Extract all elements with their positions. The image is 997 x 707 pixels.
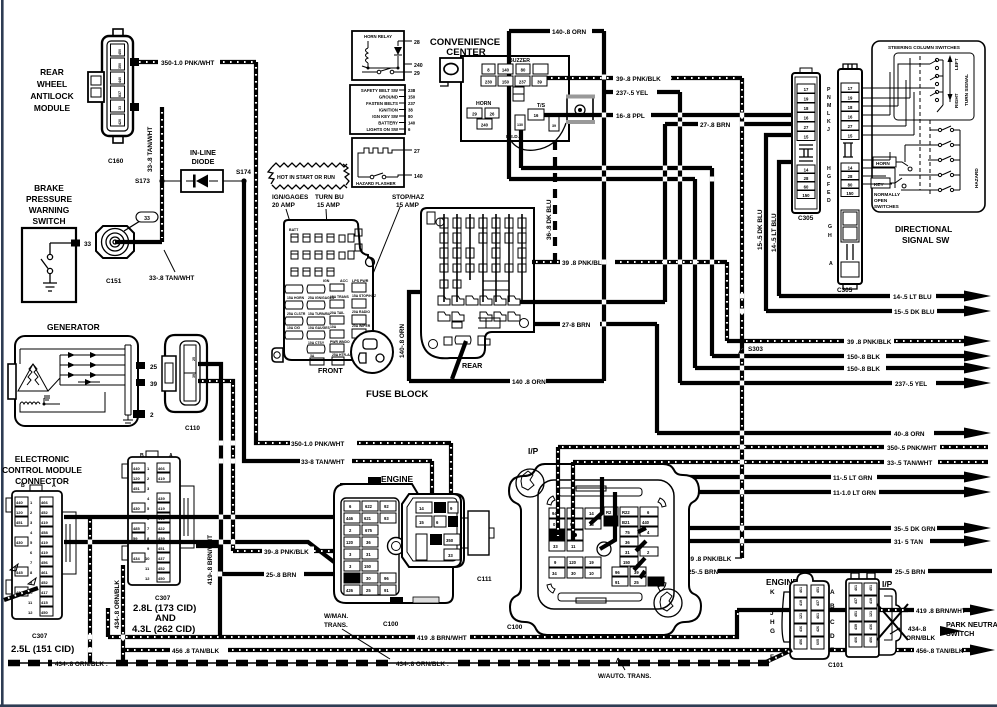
svg-text:K: K	[770, 589, 775, 596]
svg-text:ENGINE: ENGINE	[381, 474, 414, 484]
svg-text:350: 350	[446, 538, 454, 543]
in-line diode D1	[164, 148, 244, 192]
svg-text:120: 120	[346, 540, 354, 545]
hazard contacts right	[938, 128, 941, 131]
wire 27-8 BRN from rear block	[520, 302, 665, 329]
svg-text:420: 420	[118, 119, 122, 125]
svg-text:REAR: REAR	[40, 67, 64, 77]
svg-text:GROUND: GROUND	[379, 95, 398, 100]
svg-text:DIODE: DIODE	[192, 157, 215, 166]
svg-text:430: 430	[133, 506, 140, 511]
svg-text:W/MAN.: W/MAN.	[324, 613, 348, 620]
svg-text:33-.5 TAN/WHT: 33-.5 TAN/WHT	[887, 460, 932, 467]
svg-text:350: 350	[118, 63, 122, 69]
svg-text:419: 419	[41, 550, 48, 555]
wire 31-.5 TAN row	[646, 536, 991, 547]
svg-text:34: 34	[552, 571, 557, 576]
svg-text:36: 36	[366, 540, 371, 545]
svg-text:25-.5 BRN: 25-.5 BRN	[895, 569, 926, 576]
svg-text:240: 240	[481, 123, 489, 128]
svg-text:458: 458	[41, 530, 48, 535]
svg-text:350-1.0 PNK/WHT: 350-1.0 PNK/WHT	[161, 60, 214, 67]
svg-text:439: 439	[158, 496, 165, 501]
svg-text:T/S: T/S	[537, 103, 546, 109]
svg-text:19: 19	[848, 96, 853, 101]
svg-text:C110: C110	[185, 425, 200, 432]
svg-text:26: 26	[490, 112, 495, 117]
svg-text:NORMALLY: NORMALLY	[874, 192, 901, 197]
svg-text:SWITCHES: SWITCHES	[874, 204, 899, 209]
svg-text:15A STOP/HAZ: 15A STOP/HAZ	[352, 294, 376, 298]
wire 35-.5 DK GRN row	[646, 523, 991, 534]
svg-text:15: 15	[848, 134, 853, 139]
svg-text:20A TAIL: 20A TAIL	[330, 311, 344, 315]
svg-text:10A CIG: 10A CIG	[287, 326, 300, 330]
svg-text:415: 415	[41, 600, 48, 605]
left right arrows	[949, 60, 951, 102]
wire 25-.5 BRN row	[645, 569, 992, 576]
wire 25-8 BRN to engine	[221, 570, 334, 580]
svg-text:434: 434	[133, 556, 140, 561]
svg-text:39-.8 PNK/BLK: 39-.8 PNK/BLK	[616, 76, 661, 83]
wire 350-1.0 PNK/WHT top	[139, 58, 256, 68]
svg-text:436: 436	[799, 626, 803, 632]
svg-text:10A: 10A	[330, 325, 337, 329]
svg-text:19: 19	[804, 97, 809, 102]
svg-text:140: 140	[408, 121, 416, 126]
svg-text:33: 33	[553, 544, 558, 549]
wire 39-.8 PNK/BLK to engine	[233, 547, 334, 557]
svg-text:STOP/HAZ: STOP/HAZ	[392, 194, 424, 201]
svg-text:434-.8: 434-.8	[908, 626, 927, 633]
svg-text:96: 96	[384, 576, 389, 581]
wire 39-.8 PNK/BLK right row	[742, 336, 991, 347]
svg-text:33: 33	[144, 216, 150, 222]
svg-text:437: 437	[816, 600, 820, 606]
svg-text:450: 450	[118, 49, 122, 55]
node S173	[135, 178, 165, 185]
svg-text:HAZARD FLASHER: HAZARD FLASHER	[356, 181, 397, 186]
svg-text:C305: C305	[837, 287, 853, 294]
svg-text:W/AUTO. TRANS.: W/AUTO. TRANS.	[598, 673, 651, 680]
svg-text:C101: C101	[828, 662, 844, 669]
svg-text:120: 120	[650, 580, 658, 585]
svg-text:33-.8 TAN/WHT: 33-.8 TAN/WHT	[149, 275, 194, 282]
svg-text:29: 29	[472, 112, 477, 117]
svg-text:150-.8 BLK: 150-.8 BLK	[847, 354, 880, 361]
svg-text:B21: B21	[622, 520, 630, 525]
svg-text:H: H	[828, 233, 832, 239]
svg-text:121: 121	[799, 613, 803, 619]
svg-text:HOT IN START OR RUN: HOT IN START OR RUN	[277, 175, 335, 181]
svg-text:36-.8 DK BLU: 36-.8 DK BLU	[546, 199, 553, 240]
svg-text:80: 80	[408, 114, 413, 119]
svg-text:K: K	[827, 119, 831, 125]
svg-text:IGN KEY SW: IGN KEY SW	[372, 114, 399, 119]
left edge hatched stub	[4, 564, 38, 600]
svg-text:33: 33	[118, 106, 122, 110]
svg-text:430: 430	[16, 540, 23, 545]
svg-text:25-.5 BRN: 25-.5 BRN	[688, 569, 719, 576]
svg-text:439: 439	[854, 624, 858, 630]
svg-text:20 AMP: 20 AMP	[272, 202, 296, 209]
I/P connector C101	[846, 573, 901, 657]
svg-text:P.E.D.: P.E.D.	[506, 134, 519, 139]
svg-text:16: 16	[804, 116, 809, 121]
svg-text:35-.5 DK GRN: 35-.5 DK GRN	[894, 526, 936, 533]
svg-text:140-.8 ORN: 140-.8 ORN	[552, 29, 586, 36]
svg-text:11: 11	[571, 544, 576, 549]
svg-text:14: 14	[589, 511, 594, 516]
svg-text:461: 461	[41, 570, 48, 575]
wire 11-1.0 LT GRN row	[615, 487, 991, 498]
svg-text:15-.5 DK BLU: 15-.5 DK BLU	[894, 309, 935, 316]
svg-text:ACC: ACC	[340, 279, 348, 283]
wire 237-.5 YEL	[604, 88, 680, 98]
svg-text:31- 5 TAN: 31- 5 TAN	[894, 539, 923, 546]
svg-text:437: 437	[854, 598, 858, 604]
svg-text:BATT: BATT	[289, 228, 299, 232]
wire 39-.8 PNK/BLK from fuse 39	[547, 74, 742, 84]
svg-text:20A RADIO: 20A RADIO	[352, 310, 370, 314]
svg-text:CONTROL MODULE: CONTROL MODULE	[2, 465, 82, 475]
svg-text:28: 28	[414, 40, 420, 46]
wire 419-.8 BRN/WHT bottom row	[108, 608, 914, 642]
steering column switches box	[862, 41, 985, 212]
svg-text:C100: C100	[383, 621, 399, 628]
svg-text:238: 238	[408, 88, 416, 93]
wire 140-.8 ORN at rear block left	[399, 292, 421, 381]
switch list box	[350, 85, 416, 134]
svg-text:120: 120	[569, 560, 577, 565]
svg-text:HORN RELAY: HORN RELAY	[364, 34, 392, 39]
svg-text:150: 150	[502, 80, 510, 85]
svg-text:80: 80	[521, 68, 526, 73]
wire 33-.8 TAN/WHT label with arrow	[149, 250, 194, 282]
svg-text:F: F	[827, 182, 830, 188]
svg-text:237-.5 YEL: 237-.5 YEL	[895, 381, 927, 388]
svg-text:150-.8 BLK: 150-.8 BLK	[847, 366, 880, 373]
svg-text:350-1.0 PNK/WHT: 350-1.0 PNK/WHT	[291, 441, 344, 448]
svg-text:33-.8 TAN/WHT: 33-.8 TAN/WHT	[147, 127, 154, 172]
middle vertical 27-BRN x665	[663, 124, 667, 302]
svg-text:452: 452	[41, 580, 48, 585]
rear wheel antilock module label	[30, 67, 73, 113]
svg-text:AND: AND	[155, 613, 176, 624]
svg-text:18: 18	[848, 105, 853, 110]
fuse block front view	[272, 220, 375, 362]
svg-text:PWR WNDO: PWR WNDO	[330, 340, 350, 344]
svg-text:451: 451	[133, 486, 140, 491]
svg-text:437: 437	[158, 556, 165, 561]
svg-text:417: 417	[41, 590, 48, 595]
svg-text:HORN: HORN	[476, 101, 492, 107]
wire 419 from C307 down	[196, 535, 220, 637]
svg-text:TURN BU: TURN BU	[315, 194, 344, 201]
svg-text:27: 27	[414, 149, 420, 155]
svg-text:B: B	[830, 603, 835, 610]
svg-text:419: 419	[41, 520, 48, 525]
svg-text:450: 450	[158, 576, 165, 581]
svg-text:75: 75	[625, 530, 630, 535]
svg-text:434-.8 ORN/BLK :: 434-.8 ORN/BLK :	[55, 661, 108, 668]
svg-text:446: 446	[346, 516, 354, 521]
hatched diagonal at bottom C101	[766, 650, 792, 662]
svg-text:485: 485	[133, 526, 140, 531]
svg-text:A: A	[830, 589, 835, 596]
wire gen 25 to ECM area	[198, 364, 221, 573]
svg-text:28: 28	[848, 174, 853, 179]
svg-text:SIGNAL SW: SIGNAL SW	[902, 235, 949, 245]
hatched verticals into engine C111	[432, 443, 451, 540]
wires into I/P top	[558, 447, 646, 578]
svg-text:C: C	[830, 619, 835, 626]
svg-text:14-.5 LT BLU: 14-.5 LT BLU	[893, 294, 932, 301]
svg-text:RIGHT: RIGHT	[954, 93, 959, 108]
svg-text:622: 622	[365, 504, 373, 509]
svg-text:G: G	[828, 224, 832, 230]
svg-text:14-.5 LT BLU: 14-.5 LT BLU	[771, 213, 778, 252]
svg-text:FASTEN BELTS: FASTEN BELTS	[366, 101, 398, 106]
svg-text:426: 426	[816, 626, 820, 632]
svg-text:25: 25	[150, 364, 158, 371]
svg-text:456: 456	[41, 560, 48, 565]
svg-text:R22: R22	[622, 510, 630, 515]
wire 150-.8 BLK row 2	[695, 363, 991, 374]
svg-text:466: 466	[41, 500, 48, 505]
svg-text:93: 93	[384, 516, 389, 521]
wire 39-.8 PNK/BLK into I/P	[645, 556, 742, 563]
svg-text:S173: S173	[135, 178, 150, 185]
svg-text:15A TRANS: 15A TRANS	[330, 295, 349, 299]
svg-text:LIGHTS ON SW: LIGHTS ON SW	[366, 127, 398, 132]
svg-text:11-1.0 LT GRN: 11-1.0 LT GRN	[833, 490, 876, 497]
generator	[8, 322, 158, 426]
svg-text:D: D	[830, 633, 835, 640]
svg-text:17: 17	[804, 87, 809, 92]
middle vertical 140-ORN x604	[602, 31, 606, 381]
wire 456-8 TAN/BLK bottom row	[123, 648, 914, 655]
middle vertical x695	[693, 179, 697, 368]
svg-text:39 .8 PNK/BLK: 39 .8 PNK/BLK	[562, 260, 607, 267]
svg-text:D: D	[827, 198, 831, 204]
svg-text:15: 15	[804, 135, 809, 140]
fuse block rear view	[421, 208, 534, 358]
wire 434-8 ORN/BLK bottom row heavy dash	[8, 661, 769, 668]
svg-text:GENERATOR: GENERATOR	[47, 322, 100, 332]
svg-text:16: 16	[534, 113, 539, 118]
svg-text:3A: 3A	[310, 354, 315, 358]
wire 237-.5 YEL row	[680, 378, 991, 389]
svg-text:25: 25	[192, 357, 196, 361]
connector C110	[162, 335, 207, 432]
svg-text:BATTERY: BATTERY	[378, 121, 398, 126]
svg-text:17: 17	[848, 86, 853, 91]
svg-text:419 .8 BRN/WHT: 419 .8 BRN/WHT	[417, 635, 467, 642]
svg-text:150: 150	[364, 564, 372, 569]
svg-text:10A GAUGES: 10A GAUGES	[308, 326, 330, 330]
wire 434 hatched vertical x90	[88, 517, 92, 663]
svg-text:91: 91	[615, 580, 620, 585]
svg-text:237: 237	[519, 80, 527, 85]
svg-text:10: 10	[589, 571, 594, 576]
svg-text:39: 39	[537, 80, 542, 85]
svg-text:N: N	[827, 95, 831, 101]
svg-text:39-.8 PNK/BLK: 39-.8 PNK/BLK	[264, 549, 309, 556]
thin wires C305 to switch box	[862, 88, 935, 135]
wire 33 vertical from C160	[147, 107, 162, 242]
svg-text:12: 12	[28, 610, 33, 615]
svg-text:456: 456	[799, 639, 803, 645]
svg-text:J: J	[770, 610, 774, 617]
svg-text:C305: C305	[798, 215, 814, 222]
wire 350-.5 PNK/WHT row	[558, 445, 988, 452]
wire 419-.8 BRN/WHT right label	[916, 605, 995, 616]
svg-text:IGNITION: IGNITION	[379, 108, 398, 113]
horn relay box	[352, 31, 423, 80]
wire ECM to engine y517	[64, 517, 364, 540]
svg-text:E: E	[830, 647, 835, 654]
svg-text:C307: C307	[32, 633, 48, 640]
wire ECM to engine y542	[64, 542, 334, 562]
I/P connector right pin grid	[597, 507, 664, 586]
svg-text:LPS PWR: LPS PWR	[352, 279, 369, 283]
svg-text:91: 91	[384, 588, 389, 593]
engine C111 mating connector	[402, 494, 461, 567]
wire 140-.8 ORN top	[509, 29, 604, 36]
svg-text:150: 150	[623, 560, 631, 565]
svg-text:461: 461	[854, 585, 858, 591]
wire 36-8 DK BLU dashed vertical	[546, 141, 555, 260]
svg-text:419: 419	[158, 476, 165, 481]
engine C111 tab	[461, 511, 494, 583]
svg-text:15A TURN/BU: 15A TURN/BU	[308, 312, 331, 316]
svg-text:25: 25	[634, 580, 639, 585]
svg-text:440: 440	[642, 520, 650, 525]
svg-text:I/P: I/P	[882, 579, 893, 589]
svg-text:STEERING COLUMN SWITCHES: STEERING COLUMN SWITCHES	[888, 45, 960, 50]
engine connector C101	[766, 573, 844, 669]
svg-text:G: G	[827, 174, 831, 180]
svg-text:436: 436	[869, 624, 873, 630]
svg-text:419 .8 BRN/WHT: 419 .8 BRN/WHT	[916, 608, 966, 615]
svg-text:15-.5 DK BLU: 15-.5 DK BLU	[757, 209, 764, 250]
svg-text:C307: C307	[155, 595, 171, 602]
svg-text:2: 2	[150, 412, 154, 419]
svg-text:SAFETY BELT SW: SAFETY BELT SW	[361, 88, 399, 93]
svg-text:28: 28	[804, 176, 809, 181]
svg-text:27-8 BRN: 27-8 BRN	[562, 322, 591, 329]
svg-text:150: 150	[802, 193, 810, 198]
ECM connector C307 2.8L/4.3L	[122, 451, 196, 635]
svg-text:39: 39	[552, 124, 556, 128]
middle vertical x712	[710, 168, 714, 356]
svg-text:25-.8 BRN: 25-.8 BRN	[266, 572, 297, 579]
svg-text:B: B	[21, 483, 25, 489]
svg-text:33: 33	[84, 241, 92, 248]
svg-text:A: A	[829, 261, 833, 267]
svg-text:C111: C111	[477, 576, 492, 583]
wire 14-.5 LT BLU from C305	[771, 162, 991, 302]
convenience center	[430, 31, 569, 179]
svg-text:J: J	[827, 127, 830, 133]
svg-text:P: P	[827, 87, 831, 93]
svg-text:16-.8 PPL: 16-.8 PPL	[616, 113, 645, 120]
svg-text:15: 15	[419, 520, 424, 525]
hot in start or run banner	[268, 163, 349, 189]
svg-text:R2: R2	[606, 510, 612, 515]
svg-text:10: 10	[145, 556, 150, 561]
svg-text:BRAKE: BRAKE	[34, 183, 64, 193]
svg-text:240: 240	[414, 63, 423, 69]
svg-text:G: G	[770, 628, 775, 635]
wire 140 vertical through convenience center	[507, 31, 511, 179]
svg-text:451: 451	[16, 520, 23, 525]
middle vertical 237-YEL x680	[678, 92, 682, 383]
svg-text:12: 12	[145, 576, 150, 581]
svg-text:451: 451	[869, 585, 873, 591]
svg-text:39 .8 PNK/BLK: 39 .8 PNK/BLK	[847, 339, 892, 346]
svg-text:MODULE: MODULE	[34, 103, 71, 113]
wire 350-1.0 PNK/WHT vertical and to engine	[256, 62, 451, 448]
svg-text:31: 31	[366, 552, 371, 557]
wire 434 hatched vertical x123	[114, 565, 123, 663]
svg-text:419: 419	[799, 600, 803, 606]
svg-text:FUSE BLOCK: FUSE BLOCK	[366, 389, 428, 400]
svg-text:39: 39	[192, 374, 196, 378]
wire 27-.8 BRN	[665, 120, 792, 130]
svg-text:837: 837	[118, 91, 122, 97]
ECM connector C307 2.5L	[6, 483, 76, 655]
svg-text:419-.8 BRN/WHT: 419-.8 BRN/WHT	[207, 535, 214, 585]
svg-text:621: 621	[364, 516, 372, 521]
svg-text:C100: C100	[507, 624, 523, 631]
svg-text:130: 130	[517, 123, 523, 127]
svg-text:451: 451	[854, 611, 858, 617]
node S303	[739, 338, 763, 353]
engine connector C100 block	[334, 474, 464, 628]
wire 456-.8 TAN/BLK right label	[916, 645, 995, 656]
svg-text:150: 150	[846, 191, 854, 196]
svg-text:440: 440	[118, 77, 122, 83]
svg-text:434-.8 ORN/BLK: 434-.8 ORN/BLK	[114, 580, 121, 629]
svg-text:36: 36	[625, 540, 630, 545]
svg-text:ELECTRONIC: ELECTRONIC	[15, 454, 69, 464]
svg-text:92: 92	[384, 504, 389, 509]
svg-text:14: 14	[848, 166, 853, 171]
svg-text:REAR: REAR	[462, 361, 483, 370]
T/S relay at right of convenience center	[566, 95, 595, 125]
fuse labels IGN/GAGES TURN BU STOP/HAZ	[272, 194, 424, 333]
svg-text:456-.8 TAN/BLK: 456-.8 TAN/BLK	[916, 648, 964, 655]
svg-text:461: 461	[799, 587, 803, 593]
svg-text:PARK NEUTRA: PARK NEUTRA	[946, 620, 997, 629]
wire from S174 down to 33-8 TAN/WHT run	[244, 181, 432, 466]
svg-text:19: 19	[589, 560, 594, 565]
svg-text:18: 18	[804, 106, 809, 111]
w/man trans label	[324, 613, 390, 659]
svg-text:150: 150	[408, 95, 416, 100]
hatched vertical 39-PNK/BLK x742	[740, 78, 744, 558]
svg-text:452: 452	[41, 510, 48, 515]
wire 140-.8 ORN bottom of rear block	[409, 341, 604, 386]
svg-text:25A CLSTR: 25A CLSTR	[287, 312, 306, 316]
wire 40-.8 ORN row	[657, 428, 991, 439]
svg-text:39: 39	[150, 381, 158, 388]
svg-text:I/P: I/P	[528, 446, 539, 456]
svg-text:419: 419	[158, 506, 165, 511]
svg-text:140 .8 ORN: 140 .8 ORN	[512, 379, 546, 386]
